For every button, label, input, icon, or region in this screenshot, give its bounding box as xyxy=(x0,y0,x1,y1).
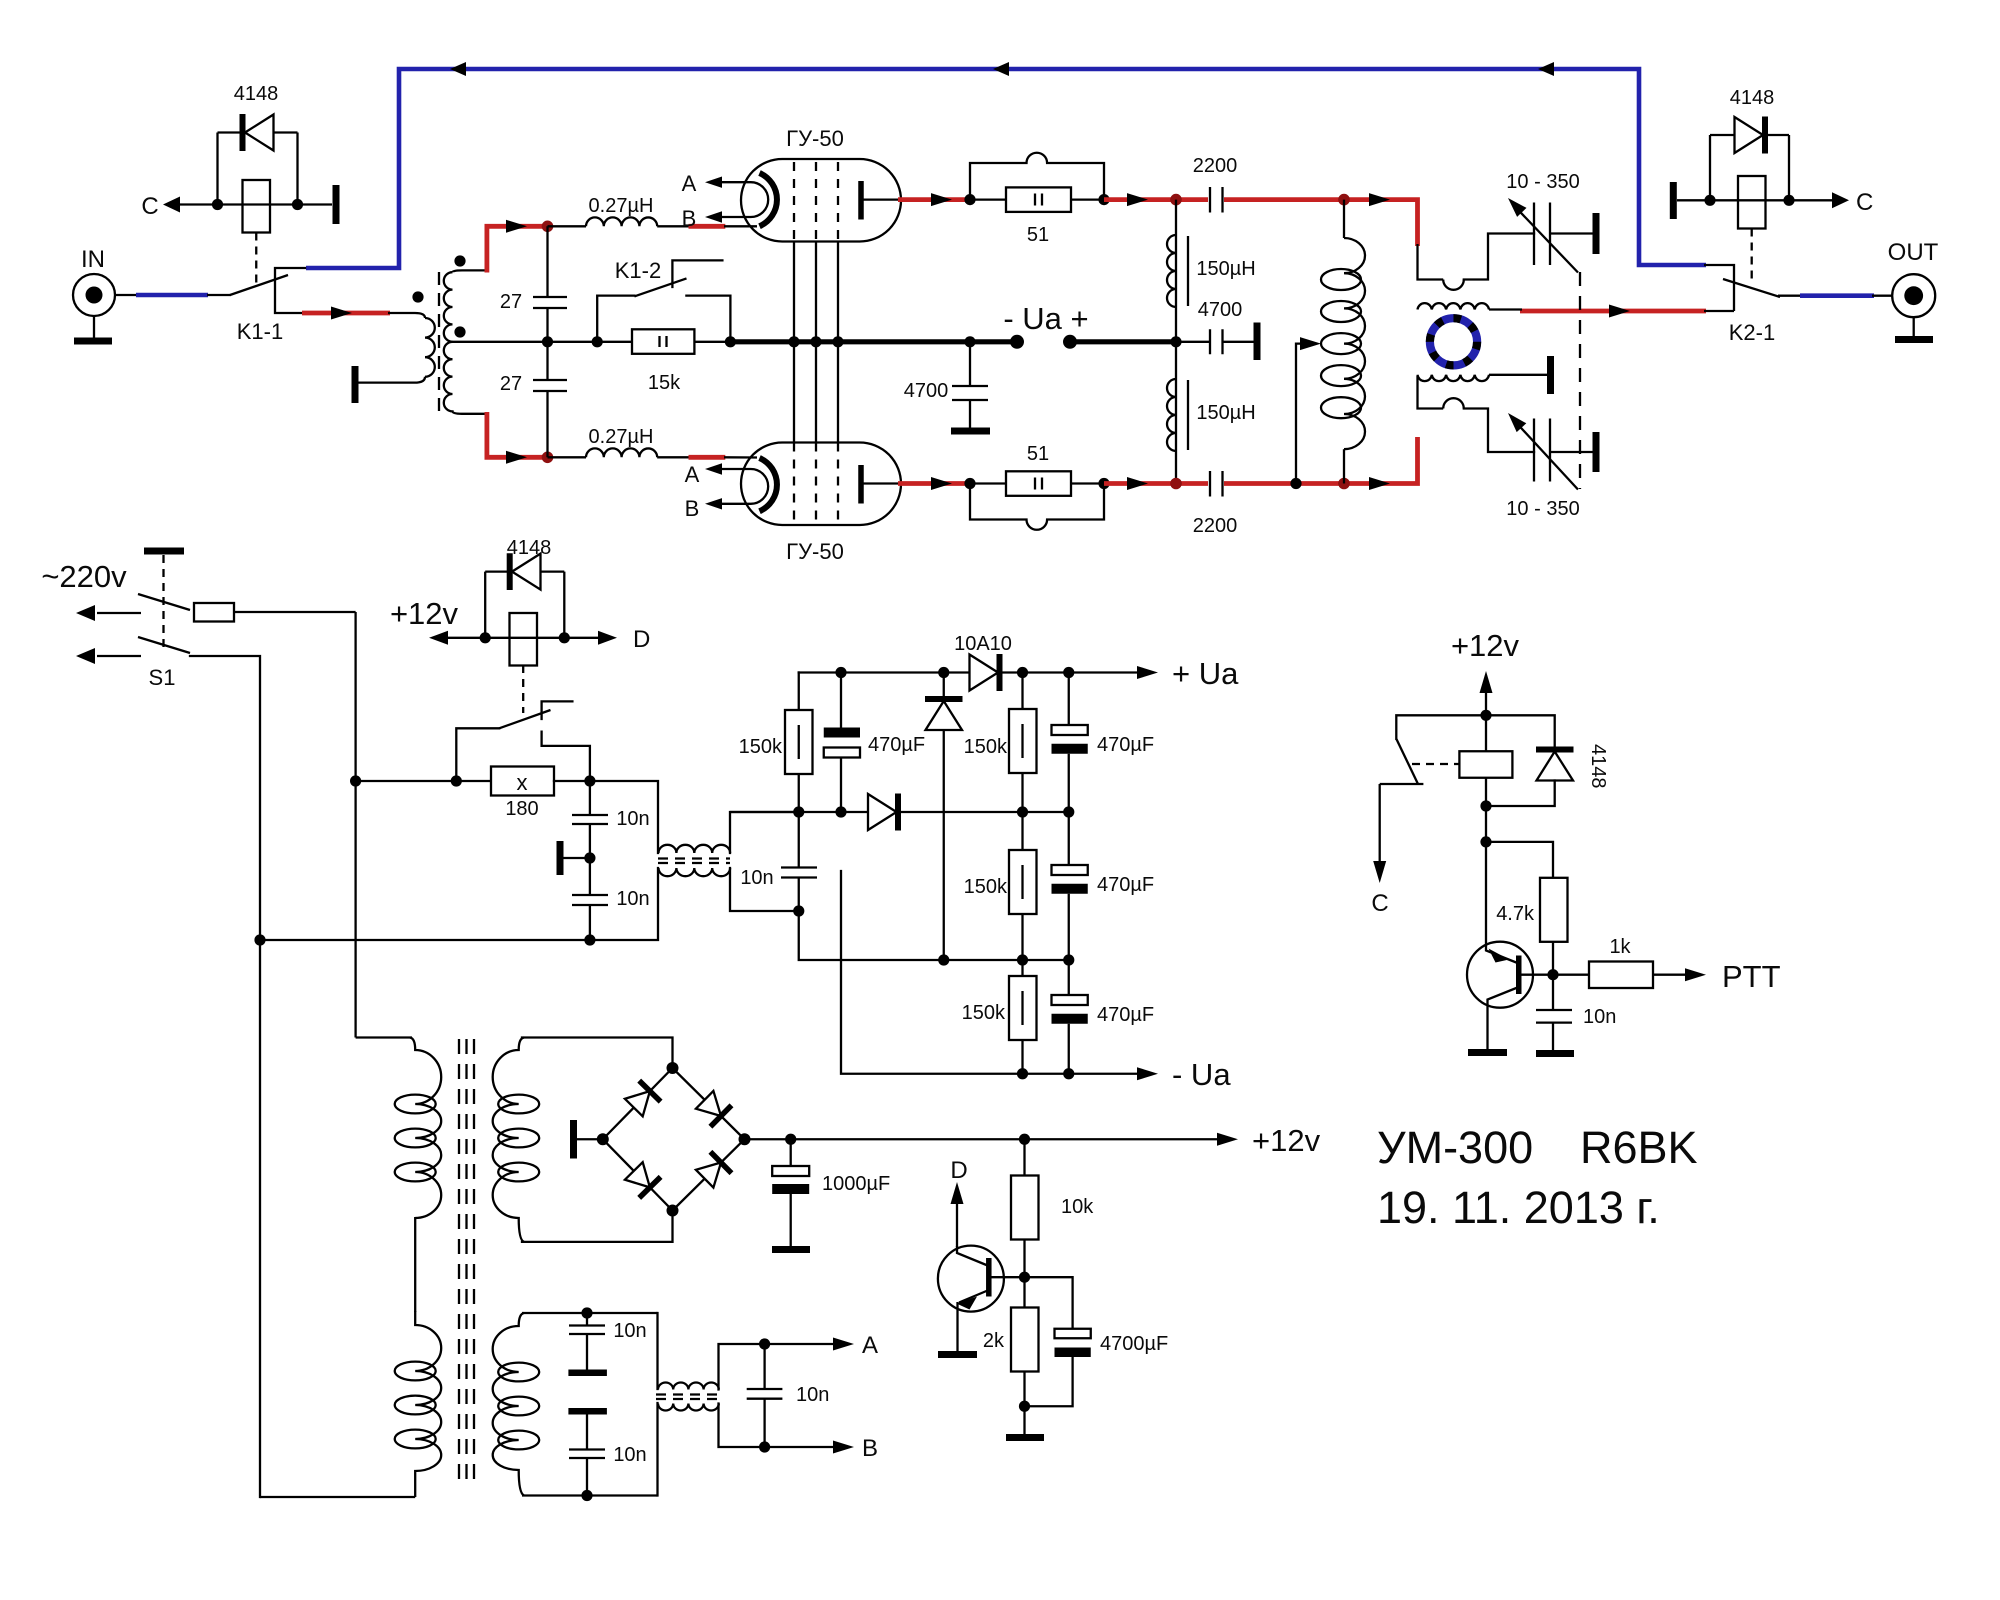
node base Q2 xyxy=(1547,969,1558,980)
svg-text:10A10: 10A10 xyxy=(954,633,1012,655)
wire to RF transformer 2 top xyxy=(656,1313,658,1389)
mid line xyxy=(730,811,1069,813)
wire bus left thin xyxy=(500,341,632,343)
wire black to cathode 1 xyxy=(724,225,757,227)
capacitor 1000uF xyxy=(772,1134,890,1246)
arrow B xyxy=(833,1441,854,1454)
node 4700 left on bus xyxy=(964,336,975,347)
svg-text:A: A xyxy=(685,462,700,487)
svg-text:A: A xyxy=(862,1332,878,1359)
node bridge right xyxy=(739,1133,751,1145)
node chokes on bus xyxy=(1170,336,1181,347)
wire to variable cap top xyxy=(1464,234,1534,280)
svg-text:27: 27 xyxy=(500,291,522,313)
wire fuse line to primary xyxy=(356,1036,412,1038)
arrow to C (right) xyxy=(1832,192,1849,208)
svg-text:ГУ-50: ГУ-50 xyxy=(786,126,844,151)
dashed link PTT relay xyxy=(1412,763,1459,765)
svg-text:~220v: ~220v xyxy=(41,559,127,594)
svg-text:51: 51 xyxy=(1027,443,1049,465)
arrow after 51 lower xyxy=(1127,477,1148,490)
node grid1 on bus xyxy=(788,336,799,347)
node D line left xyxy=(480,632,491,643)
svg-text:K1-1: K1-1 xyxy=(237,319,283,344)
ground bar 4700 right xyxy=(1254,323,1261,361)
svg-text:A: A xyxy=(682,171,697,196)
svg-text:x: x xyxy=(517,770,528,795)
svg-text:150µH: 150µH xyxy=(1196,258,1255,280)
transformer T2 primary upper winding xyxy=(395,1038,442,1219)
wire cap bottom to ground xyxy=(1550,451,1593,453)
wire blue IN segment xyxy=(136,293,208,298)
node top 470u2 xyxy=(1063,667,1074,678)
wire left riser to top line xyxy=(798,673,800,711)
arrow on blue wire right xyxy=(1538,62,1554,76)
svg-text:УМ-300: УМ-300 xyxy=(1377,1122,1533,1173)
svg-text:D: D xyxy=(950,1157,967,1184)
node base xyxy=(1019,1272,1030,1283)
ground tap chain xyxy=(560,841,590,875)
svg-text:150k: 150k xyxy=(739,736,783,758)
node -Ua 150k4 xyxy=(1017,1068,1028,1079)
ground under OUT xyxy=(1895,317,1933,340)
wire C line K2 xyxy=(1677,199,1835,201)
capacitor 27 lower xyxy=(500,373,567,395)
wire tank top right xyxy=(1418,244,1444,280)
svg-text:180: 180 xyxy=(505,798,538,820)
wire bypass loop lower 51 xyxy=(970,484,1104,530)
svg-text:10n: 10n xyxy=(613,1320,646,1342)
diode 4148 (relay K2) xyxy=(1710,87,1789,154)
svg-text:10n: 10n xyxy=(740,867,773,889)
node diode bottom xyxy=(1480,800,1491,811)
ground bar left of K2 xyxy=(1670,182,1677,219)
wire heater top lead xyxy=(522,1312,658,1314)
arrow A tube 1 xyxy=(705,177,722,188)
wire 15k to bus node xyxy=(694,341,730,343)
svg-text:4148: 4148 xyxy=(507,537,552,559)
wire black into OUT xyxy=(1872,295,1892,297)
transformer T3 primary lower winding xyxy=(395,1311,442,1497)
node anode 1 left xyxy=(964,194,975,205)
arrow PTT xyxy=(1685,968,1706,981)
chassis bar above S1 xyxy=(144,548,184,555)
wire B line xyxy=(719,1404,839,1448)
capacitor 10n PTT xyxy=(1536,975,1616,1050)
node on C line left xyxy=(212,199,223,210)
svg-text:B: B xyxy=(685,496,700,521)
capacitor 10n heater bottom xyxy=(569,1414,647,1496)
resistor 2k xyxy=(983,1277,1039,1406)
node collector branch xyxy=(1480,836,1491,847)
transformer core T-power xyxy=(459,1039,474,1489)
switch S1 pole 2 xyxy=(76,637,190,664)
node phase dot secondary upper xyxy=(454,255,465,266)
node loop right lower xyxy=(1098,478,1109,489)
svg-text:K1-2: K1-2 xyxy=(615,258,661,283)
RF transformer 1 core xyxy=(658,859,730,864)
wire x180 right xyxy=(554,781,658,853)
relay coil K2 xyxy=(1710,135,1789,229)
arrow B tube 1 xyxy=(705,211,722,222)
node -Ua 470u4 xyxy=(1063,1068,1074,1079)
node top 470u no1 xyxy=(835,667,846,678)
tube 1 cathode arc xyxy=(760,173,777,226)
svg-text:S1: S1 xyxy=(149,665,176,690)
diode 4148 (relay K1) xyxy=(218,83,298,151)
wire bottom line to RF transformer xyxy=(260,868,658,940)
relay coil D xyxy=(485,572,564,666)
node chain bottom xyxy=(584,934,595,945)
ground bar Q2 xyxy=(1468,1049,1507,1056)
node +12v 10k xyxy=(1019,1134,1030,1145)
choke 150uH upper xyxy=(1167,200,1256,342)
svg-text:PTT: PTT xyxy=(1722,959,1781,994)
wire red anode 1 xyxy=(898,197,971,202)
wire cap to bus xyxy=(546,308,548,380)
svg-text:+12v: +12v xyxy=(390,596,459,631)
wire cap top to ground xyxy=(1550,232,1593,234)
svg-text:0.27µH: 0.27µH xyxy=(589,195,654,217)
node switch right on line xyxy=(584,775,595,786)
node D line right xyxy=(559,632,570,643)
node bot diode4 xyxy=(938,954,949,965)
plate thick lower xyxy=(568,1408,607,1415)
svg-text:150µH: 150µH xyxy=(1196,402,1255,424)
wire relay bottom xyxy=(1485,778,1487,945)
arrow on red top xyxy=(506,220,527,233)
svg-text:470µF: 470µF xyxy=(868,734,925,756)
ground bar 4700 left xyxy=(951,428,990,435)
arrow +12v left xyxy=(429,631,448,645)
svg-text:15k: 15k xyxy=(648,372,681,394)
node bottom lead xyxy=(793,905,804,916)
connector OUT xyxy=(1888,239,1939,317)
svg-text:4.7k: 4.7k xyxy=(1496,903,1535,925)
wire fuse down to resistor line xyxy=(354,612,356,1038)
node chain ground xyxy=(584,852,595,863)
arrow on anode 2 xyxy=(931,477,952,490)
dashed link K1 to K1-1 xyxy=(255,233,257,287)
output transformer secondary winding xyxy=(1418,303,1523,309)
bottom return line xyxy=(799,911,1069,960)
svg-text:19. 11. 2013 г.: 19. 11. 2013 г. xyxy=(1377,1182,1660,1233)
tube 2 cathode arc xyxy=(760,458,777,511)
RF transformer 2 top winding xyxy=(658,1383,719,1390)
switch K1-2 xyxy=(597,258,730,341)
wire blue top loop xyxy=(306,69,1706,268)
hop bump bottom xyxy=(1443,398,1464,408)
resistor 150k no1 xyxy=(739,710,813,774)
capacitor 470uF no2 xyxy=(1052,673,1155,813)
wire link winding left to hop xyxy=(1418,376,1444,409)
RF transformer 1 bottom winding xyxy=(659,868,731,876)
wire primary series link xyxy=(414,1217,416,1312)
ground bar 1000uF xyxy=(772,1246,810,1253)
svg-text:- Ua: - Ua xyxy=(1172,1057,1231,1092)
hop bump top xyxy=(1443,280,1464,290)
svg-text:ГУ-50: ГУ-50 xyxy=(786,539,844,564)
svg-text:1000µF: 1000µF xyxy=(822,1173,890,1195)
node before 2200 lower xyxy=(1170,478,1182,490)
dashed link S1 xyxy=(162,555,164,651)
arrow on red wire to K2 xyxy=(1609,305,1630,318)
svg-text:150k: 150k xyxy=(964,736,1008,758)
arrow +12v xyxy=(1217,1133,1238,1146)
node grid3 on bus xyxy=(832,336,843,347)
wire red from tank to K2-1 xyxy=(1520,309,1706,314)
transformer T1 secondary upper xyxy=(444,270,500,341)
wire C line K1 xyxy=(180,203,332,205)
svg-text:0.27µH: 0.27µH xyxy=(589,426,654,448)
node mid 470u no1 xyxy=(835,806,846,817)
diode 4148 PTT xyxy=(1486,715,1609,806)
wire IN to K1-1 xyxy=(115,294,137,296)
wire primary bottom return xyxy=(260,1496,415,1498)
capacitor 10n heater top xyxy=(569,1313,647,1370)
svg-text:4148: 4148 xyxy=(234,83,279,105)
plate thick upper xyxy=(568,1370,607,1377)
capacitor 4700 left xyxy=(904,342,988,428)
wire screen line left xyxy=(356,780,491,782)
arrow B tube 2 xyxy=(705,498,722,509)
node bus gap right xyxy=(1063,335,1077,349)
variable capacitor 10-350 top xyxy=(1506,171,1579,273)
svg-text:OUT: OUT xyxy=(1888,239,1939,266)
dashed gang link variable caps xyxy=(1579,272,1581,489)
arrow +12v up xyxy=(1480,671,1493,751)
arrow on blue wire left xyxy=(450,62,466,76)
svg-text:150k: 150k xyxy=(962,1002,1006,1024)
wire red into tube 1 xyxy=(689,224,726,229)
node cap chain on bus xyxy=(542,336,553,347)
diode mid xyxy=(868,794,898,831)
inductor 0.27uH lower xyxy=(548,426,691,457)
node chain top xyxy=(581,1307,592,1318)
node fuse line junction xyxy=(350,775,361,786)
capacitor 2200 upper xyxy=(1193,155,1238,213)
wire heater bottom lead xyxy=(522,1494,658,1496)
arrow after 51 upper xyxy=(1127,193,1148,206)
tube 1 grid dashes xyxy=(794,162,838,241)
wire grids to bus xyxy=(794,241,838,443)
RF transformer 2 bottom winding xyxy=(658,1404,719,1411)
resistor 150k no2 xyxy=(964,673,1037,813)
transformer T1 core xyxy=(438,272,440,411)
node on C line right xyxy=(292,199,303,210)
wire black to cathode 2 xyxy=(724,456,757,459)
node loop right xyxy=(1098,194,1109,205)
ground under IN xyxy=(74,316,112,341)
transformer T2 secondary winding xyxy=(493,1038,540,1242)
svg-text:10k: 10k xyxy=(1061,1196,1094,1218)
wire branch to 4.7k xyxy=(1486,842,1553,878)
transformer T3 secondary winding xyxy=(493,1313,540,1496)
tube 1 filament hairpin xyxy=(721,182,768,217)
arrow D up xyxy=(950,1157,967,1247)
capacitor 27 upper xyxy=(500,291,567,313)
diode bridge bottom-right xyxy=(696,1152,732,1188)
node chain bottom xyxy=(581,1490,592,1501)
svg-text:IN: IN xyxy=(81,246,105,273)
diode vertical top xyxy=(925,673,963,961)
arrow to C (left) xyxy=(163,197,180,213)
node before 2200 upper xyxy=(1170,194,1182,206)
svg-text:4700: 4700 xyxy=(1198,299,1243,321)
RF transformer 1 top winding xyxy=(659,845,731,853)
node bot 470u3 xyxy=(1063,954,1074,965)
transformer T1 secondary lower xyxy=(444,342,487,414)
bridge rectifier frame xyxy=(603,1068,745,1211)
switch S1 pole 1 xyxy=(76,594,190,621)
toroid core ring xyxy=(1430,318,1477,365)
wire red secondary bottom xyxy=(487,412,548,457)
node relay top xyxy=(1480,710,1491,721)
capacitor 470uF no4 xyxy=(1052,960,1155,1074)
tube GU-50 upper body xyxy=(741,126,901,242)
svg-text:470µF: 470µF xyxy=(1097,874,1154,896)
capacitor 10n upper chain xyxy=(572,781,650,895)
node mid line left xyxy=(793,806,804,817)
wire grid divider vertical xyxy=(546,226,548,297)
svg-text:C: C xyxy=(141,193,158,220)
tube 1 anode xyxy=(861,181,898,220)
wire secondary top to bridge xyxy=(522,1038,673,1069)
wire blue to OUT xyxy=(1800,293,1874,298)
svg-text:+ Ua: + Ua xyxy=(1172,656,1239,691)
svg-text:4148: 4148 xyxy=(1587,744,1609,789)
switch K2-1 xyxy=(1704,265,1780,345)
arrow coil tap xyxy=(1300,337,1321,350)
svg-text:10n: 10n xyxy=(616,888,649,910)
arrow to tank top xyxy=(1369,193,1390,206)
ground bar cap top xyxy=(1593,213,1600,254)
capacitor 470uF no1 xyxy=(824,673,925,813)
wire red K1-1 to T1 xyxy=(302,311,390,316)
arrow -Ua xyxy=(1137,1067,1158,1080)
node grid2 on bus xyxy=(810,336,821,347)
tube 2 anode xyxy=(861,465,898,504)
wire 150k1 to mid xyxy=(798,774,800,812)
wire transformer top right xyxy=(730,812,799,853)
dashed link K2 to K2-1 xyxy=(1751,229,1753,282)
tube 2 filament hairpin xyxy=(721,469,768,504)
ground bar cap bottom xyxy=(1593,432,1600,472)
ground bar T1 primary xyxy=(352,366,359,403)
wire red after 2200 upper xyxy=(1224,200,1418,246)
resistor 15k xyxy=(632,329,694,394)
ground bridge left xyxy=(574,1120,609,1159)
arrow on red bottom xyxy=(506,451,527,464)
wire -Ua line xyxy=(841,871,1145,1074)
svg-text:R6BK: R6BK xyxy=(1580,1122,1698,1173)
capacitor 4700 right xyxy=(1176,299,1254,354)
svg-text:51: 51 xyxy=(1027,224,1049,246)
node tap junction xyxy=(1290,478,1301,489)
svg-text:D: D xyxy=(633,626,650,653)
svg-text:10 - 350: 10 - 350 xyxy=(1506,171,1579,193)
wire transformer bottom right xyxy=(730,868,799,911)
wire black to switch pivot xyxy=(207,294,231,296)
wire red secondary top xyxy=(487,226,548,272)
transistor Q2 xyxy=(1467,942,1553,1049)
svg-text:10n: 10n xyxy=(613,1444,646,1466)
arrow +Ua xyxy=(1137,666,1158,679)
node top junction xyxy=(542,221,554,233)
output transformer link winding xyxy=(1418,375,1548,381)
svg-text:1k: 1k xyxy=(1609,936,1631,958)
svg-text:4700µF: 4700µF xyxy=(1100,1333,1168,1355)
diode 10A10 xyxy=(954,633,1012,691)
arrow on red wire xyxy=(331,307,352,320)
wire S1 pole2 down xyxy=(190,656,260,1497)
wire black red-end to switch xyxy=(1704,310,1734,312)
svg-text:B: B xyxy=(682,206,697,231)
wire red after 51 upper xyxy=(1104,197,1208,202)
wire red anode 2 xyxy=(898,481,971,486)
node 2k bottom xyxy=(1019,1401,1030,1412)
node phase dot secondary lower xyxy=(454,326,465,337)
tube 2 grid dashes xyxy=(794,443,838,522)
node bridge top xyxy=(667,1062,679,1074)
wire D line xyxy=(446,637,600,639)
wire red after 51 lower xyxy=(1104,481,1208,486)
resistor 4.7k xyxy=(1496,878,1567,975)
RF transformer 2 core xyxy=(656,1395,721,1400)
transistor Q1 xyxy=(938,1246,1025,1351)
resistor 10k xyxy=(1011,1139,1094,1277)
node bridge bottom xyxy=(667,1205,679,1217)
ground bar link winding xyxy=(1547,356,1554,394)
svg-text:- Ua +: - Ua + xyxy=(1003,301,1088,336)
node bottom junction xyxy=(542,452,554,464)
connector IN xyxy=(73,246,115,316)
switch K1-1 xyxy=(230,268,305,344)
svg-text:27: 27 xyxy=(500,373,522,395)
svg-text:+12v: +12v xyxy=(1451,628,1520,663)
resistor 51 upper xyxy=(970,187,1104,246)
top line +Ua xyxy=(799,671,1145,673)
diode 4148 (relay D) xyxy=(485,537,564,590)
fuse xyxy=(194,603,356,622)
node phase dot T1 primary xyxy=(412,291,423,302)
svg-text:10n: 10n xyxy=(616,808,649,830)
capacitor 10n AB xyxy=(747,1338,830,1452)
node coil bottom xyxy=(1338,478,1350,490)
wire bypass loop upper 51 xyxy=(970,153,1104,200)
node top diode4 xyxy=(938,667,949,678)
relay coil K1 xyxy=(218,133,298,233)
capacitor 470uF no3 xyxy=(1052,812,1155,960)
svg-text:10 - 350: 10 - 350 xyxy=(1506,498,1579,520)
capacitor 4700uF xyxy=(1025,1277,1169,1406)
node coil top xyxy=(1338,194,1350,206)
resistor 150k no3 xyxy=(964,812,1037,960)
node switch left on line xyxy=(451,775,462,786)
variable capacitor 10-350 bottom xyxy=(1506,413,1579,520)
bus -Ua thick right segment xyxy=(1070,339,1176,344)
arrow D right xyxy=(598,631,617,645)
capacitor 2200 lower xyxy=(1193,471,1238,537)
node S1 line bottom xyxy=(254,934,265,945)
inductor 0.27uH upper xyxy=(548,195,691,226)
node mid 470u2 xyxy=(1063,806,1074,817)
relay coil PTT xyxy=(1459,751,1512,778)
ground bar 10n PTT xyxy=(1536,1050,1574,1057)
node K1-2 right on bus xyxy=(725,336,736,347)
wire red after 2200 lower xyxy=(1224,437,1418,484)
wire black blade to OUT xyxy=(1778,295,1802,297)
